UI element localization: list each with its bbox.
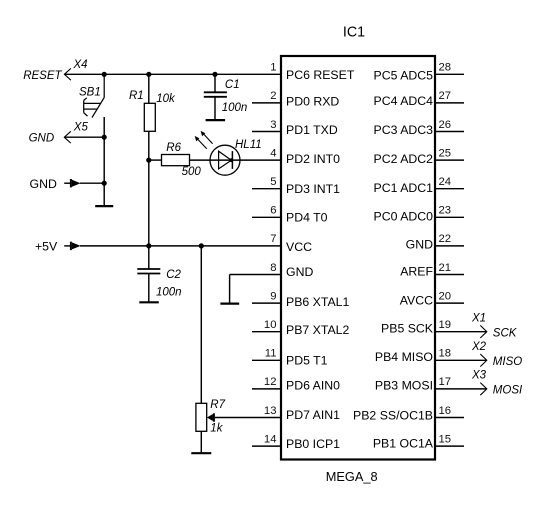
node junction RESET/C1 <box>212 72 217 77</box>
potentiometer R7 <box>196 399 281 435</box>
connector X3 open arrow <box>471 370 487 396</box>
capacitor C1 <box>204 79 247 114</box>
wire RESET net (X4 to pin 1) <box>64 73 281 75</box>
svg-text:8: 8 <box>270 262 276 274</box>
svg-text:PD3 INT1: PD3 INT1 <box>286 182 340 196</box>
connector X4 open arrow <box>64 59 87 80</box>
svg-text:17: 17 <box>439 376 452 388</box>
svg-text:R6: R6 <box>166 142 181 154</box>
wire +5V to R7 top <box>200 246 202 403</box>
ground (C1) <box>206 119 226 121</box>
svg-text:28: 28 <box>439 62 452 74</box>
pin 28 stub <box>435 73 464 75</box>
pin 15 stub <box>435 445 464 447</box>
svg-text:X2: X2 <box>471 341 487 353</box>
pushbutton SB1 <box>84 74 105 117</box>
svg-text:GND: GND <box>30 177 57 191</box>
pin 12 stub <box>252 388 281 390</box>
label SCK <box>493 328 518 340</box>
svg-text:PB2 SS/OC1B: PB2 SS/OC1B <box>353 409 433 423</box>
svg-text:15: 15 <box>439 433 452 445</box>
svg-text:X4: X4 <box>73 59 88 71</box>
wire RESET to R1 top <box>148 74 150 103</box>
svg-text:R1: R1 <box>129 90 144 102</box>
pin 25 stub <box>435 159 464 161</box>
connector X1 open arrow <box>471 313 487 339</box>
svg-text:20: 20 <box>439 290 452 302</box>
pin 16 stub <box>435 417 464 419</box>
svg-text:X5: X5 <box>73 121 89 133</box>
wire +5V rail to pin 7 VCC <box>80 245 281 247</box>
svg-text:PD5 T1: PD5 T1 <box>286 354 328 368</box>
svg-text:1: 1 <box>270 62 276 74</box>
svg-text:10k: 10k <box>156 93 176 105</box>
svg-text:MISO: MISO <box>493 356 522 368</box>
svg-text:PC0 ADC0: PC0 ADC0 <box>374 210 434 224</box>
svg-text:14: 14 <box>264 433 277 445</box>
svg-text:PB6 XTAL1: PB6 XTAL1 <box>286 295 350 309</box>
pin 27 stub <box>435 102 464 104</box>
svg-text:PD4 T0: PD4 T0 <box>286 211 328 225</box>
svg-text:PB5 SCK: PB5 SCK <box>381 321 434 335</box>
svg-text:C2: C2 <box>166 269 181 281</box>
svg-text:PD0 RXD: PD0 RXD <box>286 94 339 108</box>
ground (pin 8) <box>220 303 239 305</box>
label RESET <box>23 70 62 82</box>
pin 2 stub <box>252 102 281 104</box>
wire pin 8 GND to ground <box>230 275 281 304</box>
ground (C2) <box>139 301 159 303</box>
svg-text:HL11: HL11 <box>235 139 262 151</box>
svg-text:13: 13 <box>264 405 277 417</box>
wire SB1 bottom to ground <box>103 117 105 206</box>
svg-text:1k: 1k <box>210 423 223 435</box>
GND power tag arrow <box>64 179 80 187</box>
label GND (tag) <box>30 177 57 191</box>
resistor R1 <box>129 90 176 131</box>
svg-text:PD2 INT0: PD2 INT0 <box>286 152 340 166</box>
svg-text:16: 16 <box>439 405 452 417</box>
svg-text:X3: X3 <box>471 370 487 382</box>
svg-text:GND: GND <box>29 133 55 145</box>
wire pin 17 to X3 MOSI <box>435 388 487 390</box>
svg-text:GND: GND <box>406 237 433 251</box>
label GND (italic, X5) <box>29 133 55 145</box>
label MEGA_8 <box>326 469 378 484</box>
pin 10 stub <box>252 331 281 333</box>
capacitor C2 <box>137 269 181 298</box>
svg-text:26: 26 <box>439 119 452 131</box>
label MOSI <box>493 385 523 397</box>
svg-text:SCK: SCK <box>493 328 518 340</box>
svg-text:X1: X1 <box>471 313 486 325</box>
pin numbers right <box>439 62 452 446</box>
svg-text:PB7 XTAL2: PB7 XTAL2 <box>286 323 350 337</box>
svg-text:PD1 TXD: PD1 TXD <box>286 123 338 137</box>
wire pin 18 to X2 MISO <box>435 359 487 361</box>
pin 5 stub <box>252 188 281 190</box>
svg-text:PB0 ICP1: PB0 ICP1 <box>286 437 340 451</box>
svg-text:RESET: RESET <box>23 70 62 82</box>
ground (R7) <box>191 452 211 454</box>
pin numbers left <box>264 62 277 446</box>
svg-text:3: 3 <box>270 119 276 131</box>
wire pin 19 to X1 SCK <box>435 331 487 333</box>
svg-text:PD7 AIN1: PD7 AIN1 <box>286 408 340 422</box>
pin 22 stub <box>435 245 464 247</box>
wire junction to R6 <box>149 159 162 161</box>
pin 11 stub <box>252 359 281 361</box>
svg-text:21: 21 <box>439 262 452 274</box>
wire R6 to LED to pin 4 <box>190 159 282 161</box>
svg-text:AREF: AREF <box>400 265 433 279</box>
wire X5 to SB1 net <box>64 136 104 138</box>
wire +5V to C2 top <box>148 246 150 269</box>
svg-text:100n: 100n <box>156 286 182 298</box>
wire RESET to C1 top <box>214 74 216 92</box>
svg-text:22: 22 <box>439 233 452 245</box>
svg-text:MEGA_8: MEGA_8 <box>326 469 378 484</box>
svg-text:12: 12 <box>264 376 277 388</box>
ground (SB1 branch) <box>95 205 113 207</box>
pin 20 stub <box>435 302 464 304</box>
node junction +5V/R7 <box>199 243 204 248</box>
IC IC1 MEGA_8 body <box>281 56 435 460</box>
svg-text:MOSI: MOSI <box>493 385 523 397</box>
connector X2 open arrow <box>471 341 487 367</box>
node junction X5 wire <box>102 135 107 140</box>
pin 14 stub <box>252 445 281 447</box>
resistor R6 <box>162 142 202 178</box>
svg-text:VCC: VCC <box>286 240 312 254</box>
svg-text:27: 27 <box>439 90 452 102</box>
svg-text:11: 11 <box>265 348 277 360</box>
svg-text:PC4 ADC4: PC4 ADC4 <box>374 94 434 108</box>
svg-text:500: 500 <box>182 166 202 178</box>
svg-text:PC5 ADC5: PC5 ADC5 <box>374 68 434 82</box>
svg-text:4: 4 <box>270 147 276 159</box>
pin 23 stub <box>435 216 464 218</box>
svg-text:19: 19 <box>439 319 452 331</box>
svg-text:C1: C1 <box>225 79 240 91</box>
pin 9 stub <box>252 302 281 304</box>
svg-text:5: 5 <box>270 176 276 188</box>
svg-text:PC3 ADC3: PC3 ADC3 <box>374 123 434 137</box>
svg-text:PB1 OC1A: PB1 OC1A <box>373 437 434 451</box>
wire C1 bottom to ground <box>214 97 216 120</box>
svg-text:SB1: SB1 <box>79 87 101 99</box>
wire R7 bottom to ground <box>200 431 202 453</box>
label +5V <box>35 240 58 254</box>
pin 3 stub <box>252 131 281 133</box>
pin labels right column <box>353 68 434 450</box>
svg-text:IC1: IC1 <box>343 25 365 41</box>
svg-text:AVCC: AVCC <box>400 294 433 308</box>
svg-text:6: 6 <box>270 205 276 217</box>
svg-text:7: 7 <box>270 233 276 245</box>
label IC1 <box>343 25 365 41</box>
node junction R1 wire / R6 <box>146 158 151 163</box>
svg-text:PC1 ADC1: PC1 ADC1 <box>374 181 434 195</box>
svg-text:25: 25 <box>439 147 452 159</box>
node junction RESET/R1 <box>146 72 151 77</box>
svg-text:PB3 MOSI: PB3 MOSI <box>375 378 433 392</box>
pin labels left column <box>286 68 355 451</box>
svg-text:GND: GND <box>286 265 313 279</box>
pin 21 stub <box>435 274 464 276</box>
+5V power tag arrow <box>64 242 80 250</box>
wire GND tag to SB1 net <box>80 182 104 184</box>
wire R1 bottom to +5V rail <box>148 131 150 246</box>
node junction GND wire <box>102 181 107 186</box>
svg-text:23: 23 <box>439 205 452 217</box>
svg-text:+5V: +5V <box>35 240 58 254</box>
svg-text:2: 2 <box>270 90 276 102</box>
label MISO <box>493 356 522 368</box>
pin 6 stub <box>252 216 281 218</box>
pin 24 stub <box>435 188 464 190</box>
node junction +5V/C2 <box>146 243 151 248</box>
svg-text:PD6 AIN0: PD6 AIN0 <box>286 378 340 392</box>
svg-text:10: 10 <box>264 319 277 331</box>
svg-text:R7: R7 <box>210 399 225 411</box>
connector X5 open arrow <box>64 121 88 143</box>
svg-text:100n: 100n <box>222 102 248 114</box>
svg-text:24: 24 <box>439 176 452 188</box>
wire C2 bottom to ground <box>148 274 150 303</box>
pin 26 stub <box>435 131 464 133</box>
svg-text:9: 9 <box>270 290 276 302</box>
LED HL11 <box>195 131 262 176</box>
label SB1 <box>79 87 101 99</box>
svg-text:18: 18 <box>439 348 452 360</box>
svg-text:PC2 ADC2: PC2 ADC2 <box>374 152 434 166</box>
svg-text:PB4 MISO: PB4 MISO <box>375 350 433 364</box>
node junction RESET/SB1 <box>102 72 107 77</box>
svg-text:PC6 RESET: PC6 RESET <box>286 68 355 82</box>
